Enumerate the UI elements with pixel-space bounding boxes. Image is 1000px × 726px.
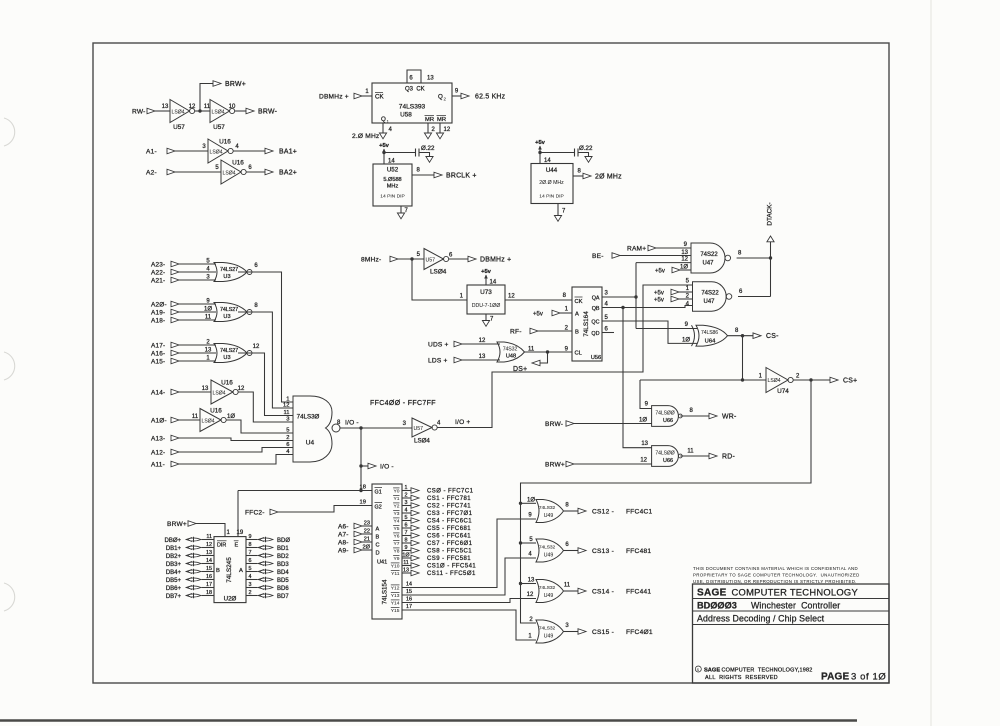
- output tag CS9: [411, 555, 419, 561]
- wire CS- down to U74 input node: [742, 336, 744, 380]
- svg-text:DB1+: DB1+: [166, 546, 182, 552]
- svg-text:+5v: +5v: [654, 297, 664, 303]
- svg-text:74LS86: 74LS86: [701, 330, 718, 336]
- svg-text:SAGE: SAGE: [697, 587, 727, 598]
- wire A23- to U3: [179, 263, 216, 265]
- wire U66b out pin 11 to RD- tag: [680, 455, 709, 457]
- wire U58 MR pin 12 down: [439, 123, 441, 133]
- svg-text:CK: CK: [575, 299, 583, 305]
- wire BE- to U47a pin 13: [620, 255, 691, 257]
- svg-text:A16-: A16-: [151, 350, 165, 357]
- svg-text:U49: U49: [544, 593, 554, 599]
- output tag BRW+: [213, 81, 221, 87]
- wire A16- to U3: [179, 352, 216, 354]
- wire U20 to BD7: [246, 595, 258, 597]
- svg-text:U41: U41: [377, 560, 387, 566]
- wire UDS+ to U48 pin 12: [462, 343, 500, 345]
- svg-text:11: 11: [192, 414, 199, 420]
- svg-text:Y1: Y1: [394, 496, 400, 502]
- wire A22- to U3: [179, 271, 216, 273]
- svg-text:U2Ø: U2Ø: [224, 596, 237, 603]
- oscillator U52 5.0588 MHz: [373, 164, 412, 206]
- svg-text:FFC4ØØ - FFC7FF: FFC4ØØ - FFC7FF: [370, 400, 436, 407]
- wire cap to ground: [419, 153, 430, 157]
- wire LDS+ to U48 pin 13: [462, 359, 500, 361]
- svg-text:BD2: BD2: [277, 554, 289, 560]
- wire U47a out pin 8 to DTACK node: [737, 257, 771, 259]
- inverter U57c I/O (LS04): [412, 418, 432, 437]
- wire U57c out I/O+ to U47b pin 5: [437, 285, 692, 428]
- svg-text:+5v: +5v: [481, 269, 492, 275]
- wire U58 Q3-CK feedback loop pins 6,13: [407, 70, 421, 83]
- output tag CS1: [411, 495, 419, 501]
- wire DB3+ to U20: [202, 563, 215, 565]
- svg-text:FFC4C1: FFC4C1: [626, 508, 652, 515]
- junction CS-: [741, 334, 744, 337]
- svg-text:74LS3Ø: 74LS3Ø: [297, 414, 320, 421]
- output tag 20 MHz: [583, 173, 591, 179]
- svg-text:RF-: RF-: [510, 328, 522, 335]
- NAND gate U66b 74LS00: [652, 446, 679, 467]
- svg-text:74LS245: 74LS245: [226, 557, 233, 583]
- wire U20 to BD3: [246, 563, 258, 565]
- svg-text:BD4: BD4: [277, 570, 289, 576]
- wire A15- to U3: [179, 360, 216, 362]
- svg-text:MHz: MHz: [387, 184, 399, 190]
- svg-text:74LSØØ: 74LSØØ: [655, 410, 674, 416]
- wire U41 Y9 out: [402, 557, 411, 559]
- svg-text:1Ø: 1Ø: [402, 552, 410, 558]
- output tag 62.5 KHz: [461, 93, 469, 99]
- svg-text:U16: U16: [219, 139, 231, 146]
- wire U41 Y0 out: [402, 490, 411, 492]
- svg-text:A11-: A11-: [151, 461, 165, 468]
- XOR gate U64 74LS86: [692, 325, 695, 346]
- wire 8MHz- to U57d: [398, 258, 424, 260]
- svg-text:Q3 CK: Q3 CK: [405, 87, 425, 93]
- svg-text:DB7+: DB7+: [166, 594, 182, 600]
- svg-text:U3: U3: [223, 274, 230, 280]
- wire U64 out pin 8 to CS- tag: [728, 335, 754, 337]
- svg-text:18: 18: [206, 590, 212, 596]
- output tag CS6: [411, 533, 419, 539]
- wire DBMHz+ to U58 CK pin 1: [362, 95, 372, 97]
- svg-text:U57: U57: [213, 124, 225, 131]
- wire enable line U20-E to U41-G1: [238, 490, 372, 492]
- svg-text:MR: MR: [437, 117, 446, 123]
- svg-text:Y0: Y0: [394, 489, 400, 495]
- svg-text:CK: CK: [375, 94, 384, 101]
- svg-text:U16: U16: [221, 380, 233, 387]
- svg-text:RAM+: RAM+: [627, 245, 646, 252]
- svg-text:CSØ - FFC7C1: CSØ - FFC7C1: [427, 489, 474, 495]
- svg-text:FFC2-: FFC2-: [245, 509, 265, 516]
- svg-text:U56: U56: [591, 355, 601, 361]
- wire A11- to U4 pin 4: [179, 455, 293, 465]
- output tag CS11: [411, 570, 419, 576]
- svg-text:12: 12: [681, 257, 688, 263]
- svg-text:11: 11: [403, 560, 409, 566]
- svg-text:CS4 - FFC6C1: CS4 - FFC6C1: [427, 519, 472, 525]
- svg-text:21: 21: [364, 536, 370, 542]
- svg-text:DIR: DIR: [217, 543, 226, 549]
- wire U52 pin 7 to ground: [400, 206, 402, 213]
- wire A21- to U3: [179, 279, 216, 281]
- wire A7- to U41: [362, 533, 372, 535]
- svg-text:CS9 - FFC581: CS9 - FFC581: [427, 556, 471, 562]
- svg-text:12: 12: [238, 386, 245, 392]
- svg-text:12: 12: [283, 403, 289, 409]
- svg-text:SAGE: SAGE: [704, 668, 720, 674]
- wire +5v to bypass cap: [384, 152, 416, 154]
- wire U41 Y14 to U49c pin 12: [402, 599, 536, 603]
- svg-text:16: 16: [406, 597, 412, 603]
- svg-text:19: 19: [237, 530, 244, 536]
- svg-text:DDU-7-1ØØ: DDU-7-1ØØ: [472, 303, 501, 309]
- ground symbol U44 pin7: [554, 216, 561, 222]
- svg-text:A9-: A9-: [338, 547, 349, 554]
- svg-text:74LS32: 74LS32: [539, 585, 556, 591]
- svg-text:74S22: 74S22: [701, 291, 719, 297]
- svg-text:LSØ4: LSØ4: [172, 109, 185, 115]
- svg-text:Address Decoding / Chip Select: Address Decoding / Chip Select: [697, 614, 825, 624]
- wire U3 output to U4 input: [238, 312, 293, 408]
- svg-text:RD-: RD-: [722, 453, 735, 460]
- wire A17- to U3: [179, 344, 216, 346]
- svg-text:U73: U73: [480, 289, 492, 296]
- svg-text:7: 7: [405, 530, 408, 536]
- NOR gate U3 74LS27: [214, 303, 247, 322]
- svg-text:A: A: [575, 312, 579, 318]
- svg-text:Y11: Y11: [391, 571, 400, 577]
- svg-text:DS+: DS+: [513, 366, 527, 373]
- svg-text:Y9: Y9: [394, 556, 400, 562]
- svg-text:Y8: Y8: [394, 549, 400, 555]
- wire to DS+ tag: [540, 352, 548, 363]
- wire A1- to U16a pin 3: [175, 150, 208, 152]
- wire U74 input line: [640, 379, 766, 381]
- wire U41 Y15 to U49d pin 1: [402, 610, 536, 640]
- svg-text:3: 3: [286, 417, 289, 423]
- output tag CS14: [578, 588, 586, 594]
- svg-text:23: 23: [364, 520, 370, 526]
- bidir tag BD3: [258, 562, 273, 565]
- svg-text:C: C: [376, 543, 380, 549]
- svg-text:D: D: [376, 551, 380, 557]
- capacitor 0.22 at U44: [574, 149, 576, 157]
- svg-text:Y12: Y12: [391, 586, 400, 592]
- output tag WR-: [709, 413, 717, 419]
- wire U3 output to U4 input: [238, 353, 293, 416]
- wire DB4+ to U20: [202, 571, 215, 573]
- svg-text:A2Ø-: A2Ø-: [151, 301, 167, 308]
- svg-text:PROPRIETARY TO SAGE COMPUTER T: PROPRIETARY TO SAGE COMPUTER TECHNOLOGY.…: [693, 572, 860, 577]
- output tag CS5: [411, 525, 419, 531]
- svg-text:12: 12: [527, 592, 534, 598]
- svg-text:5: 5: [249, 566, 252, 572]
- svg-text:U58: U58: [400, 112, 412, 119]
- svg-text:G2: G2: [375, 505, 382, 511]
- wire U66a out pin 8 to WR- tag: [680, 415, 709, 417]
- svg-text:Y6: Y6: [394, 534, 400, 540]
- svg-text:CS1 - FFC781: CS1 - FFC781: [427, 496, 471, 502]
- svg-text:BRW+: BRW+: [545, 461, 565, 468]
- wire U56 QB pin 4 to U47b pin 4: [602, 306, 693, 308]
- svg-text:BRW+: BRW+: [225, 81, 246, 88]
- svg-text:3: 3: [249, 582, 252, 588]
- transceiver U20 74LS245: [214, 537, 246, 603]
- junction DS+ branch: [546, 350, 549, 353]
- NOR gate U3 74LS27: [214, 263, 247, 282]
- output tag CS+: [830, 377, 838, 383]
- shift register U56 74LS164: [572, 287, 602, 361]
- svg-text:16: 16: [206, 574, 212, 580]
- svg-text:4: 4: [249, 574, 252, 580]
- ground symbol Q1: [379, 133, 386, 139]
- wire CS+ branch to U49a: [521, 502, 537, 504]
- wire U57b out to BRW- tag: [235, 110, 246, 112]
- svg-text:A14-: A14-: [151, 389, 165, 396]
- svg-text:A2-: A2-: [146, 169, 157, 176]
- junction I/O- branch: [359, 426, 362, 429]
- svg-text:U74: U74: [777, 388, 789, 395]
- wire CS+ branch to U49c: [521, 583, 537, 585]
- svg-text:U44: U44: [546, 167, 558, 174]
- svg-text:14: 14: [206, 558, 212, 564]
- svg-text:U49: U49: [544, 552, 554, 558]
- output tag CS15: [578, 629, 586, 635]
- wire U56 QD pin 6 stub: [602, 332, 614, 334]
- wire U58 MR pin 2 down: [427, 123, 429, 133]
- svg-text:B: B: [216, 568, 220, 574]
- junction CS+ to U49c: [519, 582, 522, 585]
- svg-text:A22-: A22-: [151, 269, 165, 276]
- svg-text:9: 9: [405, 545, 408, 551]
- NAND gate U47a 74S22: [691, 243, 725, 273]
- svg-text:12: 12: [253, 344, 260, 350]
- wire U41 Y11 out: [402, 572, 411, 574]
- svg-text:8: 8: [249, 542, 252, 548]
- wire A10- to U16d pin 11: [179, 419, 200, 421]
- svg-text:A15-: A15-: [151, 358, 165, 365]
- svg-text:MR: MR: [425, 117, 434, 123]
- wire U41 Y1 out: [402, 497, 411, 499]
- wire U57a out to U57b in: [195, 110, 210, 112]
- output tag CS3: [411, 510, 419, 516]
- junction CS+ to U49a: [519, 502, 522, 505]
- svg-text:15: 15: [406, 589, 412, 595]
- svg-text:A8-: A8-: [338, 539, 349, 546]
- wire U58 Q1 pin 4 to 2.0MHz ground arrow: [382, 123, 384, 133]
- svg-text:UDS +: UDS +: [428, 341, 449, 348]
- svg-text:U57: U57: [173, 124, 185, 131]
- svg-text:FFC441: FFC441: [626, 588, 651, 595]
- svg-text:CS14 -: CS14 -: [592, 588, 614, 595]
- svg-text:Y10: Y10: [391, 564, 400, 570]
- svg-text:DBMHz +: DBMHz +: [480, 256, 511, 263]
- wire U16d out to U4 pin 5: [226, 420, 293, 433]
- svg-text:ALL RIGHTS RESERVED: ALL RIGHTS RESERVED: [705, 675, 778, 681]
- wire DB2+ to U20: [202, 555, 215, 557]
- svg-text:+5v: +5v: [533, 311, 543, 317]
- ground symbol MR pin12: [436, 133, 443, 139]
- wire +5v to U47b pin 2: [679, 298, 693, 300]
- svg-text:5: 5: [405, 515, 408, 521]
- svg-text:+5v: +5v: [654, 290, 664, 296]
- output tag DBMHz+: [468, 256, 476, 262]
- wire U41 Y2 out: [402, 505, 411, 507]
- svg-text:U3: U3: [223, 314, 230, 320]
- svg-text:13: 13: [162, 104, 169, 110]
- svg-text:Ø.22: Ø.22: [579, 145, 593, 152]
- wire U41 Y10 out: [402, 565, 411, 567]
- svg-text:U64: U64: [705, 338, 716, 344]
- bidir tag BD1: [258, 546, 273, 549]
- output tag I/O-: [368, 463, 376, 469]
- wire U48 out to U56 CL pin 9: [525, 351, 573, 353]
- svg-text:U16: U16: [210, 408, 222, 415]
- svg-text:74LS27: 74LS27: [220, 267, 238, 273]
- wire DB0+ to U20: [202, 539, 215, 541]
- svg-text:1Ø: 1Ø: [227, 414, 235, 420]
- ground symbol MR pin2: [424, 133, 431, 139]
- svg-text:CS7 - FFC6Ø1: CS7 - FFC6Ø1: [427, 541, 473, 547]
- svg-text:1Ø: 1Ø: [639, 418, 647, 424]
- wire U41 Y6 out: [402, 535, 411, 537]
- wire to I/O- tag: [361, 465, 368, 467]
- svg-text:DB3+: DB3+: [166, 562, 182, 568]
- wire A6- to U41: [362, 525, 372, 527]
- svg-text:U47: U47: [703, 299, 715, 305]
- svg-text:I/O +: I/O +: [455, 419, 470, 426]
- svg-text:74LS154: 74LS154: [382, 579, 389, 604]
- wire U56 QA pin 3: [602, 296, 636, 298]
- svg-text:BDØØØ3: BDØØØ3: [697, 601, 737, 611]
- svg-text:CS6 - FFC641: CS6 - FFC641: [427, 534, 471, 540]
- svg-text:DBMHz +: DBMHz +: [319, 93, 349, 100]
- inverter U16d (LS04): [200, 409, 221, 432]
- wire RF- to U56 pin 2: [538, 330, 572, 332]
- svg-text:CS11 - FFC5Ø1: CS11 - FFC5Ø1: [427, 571, 476, 577]
- svg-text:BDØ: BDØ: [277, 538, 290, 544]
- svg-text:1Ø: 1Ø: [204, 306, 212, 312]
- ground symbol cap U52: [426, 157, 433, 163]
- bidir tag BD7: [258, 594, 273, 597]
- svg-text:Y4: Y4: [394, 519, 400, 525]
- svg-text:12: 12: [444, 127, 451, 133]
- wire RAM+ to U47a pin 9: [656, 247, 691, 249]
- svg-text:DB5+: DB5+: [166, 578, 182, 584]
- svg-text:4: 4: [405, 507, 408, 513]
- OR gate U49b 74LS32: [536, 539, 564, 562]
- wire U41 Y12 to U49a pin 9: [402, 519, 536, 588]
- wire U44 pin 8 out: [573, 175, 583, 177]
- svg-text:RW-: RW-: [132, 108, 146, 115]
- wire U16b out to BA2+ tag: [246, 171, 265, 173]
- svg-text:5.Ø588: 5.Ø588: [383, 177, 401, 183]
- NAND gate U4 74LS30: [293, 396, 332, 462]
- svg-text:+5v: +5v: [379, 143, 390, 149]
- NAND gate U47b 74S22: [693, 282, 727, 311]
- junction +5v/cap: [382, 151, 385, 154]
- wire CS+ feedback down-left to U49 gates: [521, 380, 812, 623]
- output tag CS13: [578, 548, 586, 554]
- svg-text:13: 13: [427, 76, 434, 82]
- svg-text:12: 12: [508, 294, 515, 300]
- wire U20 to BD0: [246, 539, 258, 541]
- arrow up DTACK-: [767, 236, 774, 242]
- wire U20 to BD5: [246, 579, 258, 581]
- svg-text:CS1Ø - FFC541: CS1Ø - FFC541: [427, 564, 476, 570]
- junction CS-/U74 input: [741, 378, 744, 381]
- svg-text:U16: U16: [232, 160, 244, 167]
- wire DB6+ to U20: [202, 587, 215, 589]
- junction QB: [621, 306, 624, 309]
- wire +5v to U47a pin 10: [680, 269, 691, 271]
- junction CS+ to U49b: [519, 541, 522, 544]
- output tag RD-: [709, 453, 717, 459]
- svg-text:A13-: A13-: [151, 435, 165, 442]
- svg-text:DB2+: DB2+: [166, 554, 182, 560]
- svg-text:CS5 - FFC681: CS5 - FFC681: [427, 526, 471, 532]
- svg-text:DTACK-: DTACK-: [767, 202, 774, 225]
- svg-text:U4: U4: [306, 440, 315, 447]
- junction QA: [634, 295, 637, 298]
- wire BRW+ to U66b pin 12: [574, 463, 652, 465]
- junction DTACK: [769, 256, 772, 259]
- wire U16a out to BA1+ tag: [233, 150, 265, 152]
- svg-text:2.Ø MHz: 2.Ø MHz: [352, 133, 379, 140]
- bidir tag BD0: [258, 538, 273, 541]
- svg-text:BD1: BD1: [277, 546, 289, 552]
- svg-text:CS-: CS-: [766, 333, 779, 340]
- svg-text:13: 13: [205, 347, 212, 353]
- svg-text:B: B: [575, 330, 579, 336]
- svg-text:14 PIN DIP: 14 PIN DIP: [380, 194, 404, 200]
- wire A2- to U16b pin 5: [175, 171, 221, 173]
- wire U20 to BD1: [246, 547, 258, 549]
- bidir tag BD2: [258, 554, 273, 557]
- wire A19- to U3: [179, 311, 216, 313]
- svg-text:2: 2: [286, 435, 289, 441]
- svg-text:8: 8: [405, 537, 408, 543]
- svg-text:12: 12: [189, 104, 196, 110]
- svg-text:13: 13: [479, 354, 486, 360]
- svg-text:6: 6: [286, 442, 289, 448]
- svg-text:74LS32: 74LS32: [539, 545, 556, 551]
- svg-text:1Ø: 1Ø: [680, 264, 688, 270]
- OR gate U49d 74LS32: [536, 620, 564, 643]
- inverter U74 (LS04): [766, 368, 788, 393]
- svg-text:COMPUTER TECHNOLOGY,1982: COMPUTER TECHNOLOGY,1982: [722, 668, 813, 674]
- wire QB net vertical to U66b pin 13: [623, 308, 652, 448]
- svg-text:12: 12: [479, 338, 486, 344]
- svg-text:2Ø.Ø MHz: 2Ø.Ø MHz: [539, 180, 564, 186]
- svg-text:2: 2: [405, 492, 408, 498]
- svg-text:CS+: CS+: [843, 377, 857, 384]
- svg-text:5: 5: [286, 428, 289, 434]
- svg-text:PAGE: PAGE: [821, 672, 850, 683]
- svg-text:U47: U47: [702, 261, 714, 267]
- output tag CS2: [411, 503, 419, 509]
- svg-text:USE, DISTRIBUTION, OR REPRODUC: USE, DISTRIBUTION, OR REPRODUCTION IS ST…: [693, 579, 857, 584]
- svg-text:+5v: +5v: [655, 268, 665, 274]
- svg-text:DB6+: DB6+: [166, 586, 182, 592]
- svg-text:12: 12: [640, 458, 647, 464]
- svg-text:17: 17: [206, 582, 212, 588]
- svg-text:QA: QA: [592, 296, 600, 302]
- inverter U16a (LS04): [208, 139, 228, 163]
